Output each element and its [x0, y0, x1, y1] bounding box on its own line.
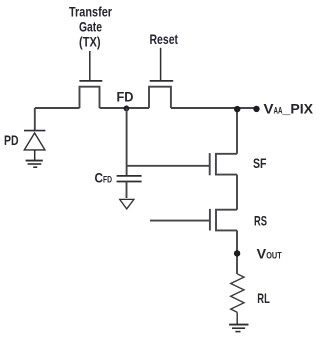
wire FD branch to SF gate [127, 165, 210, 167]
photodiode PD cathode bar [24, 130, 45, 132]
wire RS source down to VOUT [236, 230, 238, 274]
svg-text:FD: FD [117, 88, 134, 104]
wire SF source to RS drain [236, 175, 238, 210]
label VOUT [257, 246, 282, 262]
transistor RS gate lead [150, 220, 210, 222]
capacitor CFD plates [117, 176, 142, 182]
wire capacitor bottom lead [126, 182, 128, 199]
label VAA_PIX [264, 101, 314, 117]
wire RL bottom lead [236, 312, 238, 324]
transistor TX (transfer gate) channel bump [80, 87, 100, 108]
wire PD branch vertical [34, 108, 36, 131]
svg-text:RS: RS [254, 213, 267, 229]
ground triangle below CFD [120, 199, 134, 209]
node VAA_PIX junction dot [234, 106, 240, 112]
transistor SF channel and drain/source stubs [216, 154, 237, 175]
label RL [257, 290, 270, 306]
label RS [254, 213, 267, 229]
svg-text:Reset: Reset [150, 31, 179, 47]
svg-text:RL: RL [257, 290, 270, 306]
node FD junction dot [124, 106, 130, 112]
wire FD vertical to capacitor [126, 108, 128, 176]
svg-text:Transfer: Transfer [69, 4, 112, 20]
transistor Reset channel bump [149, 87, 171, 108]
transistor TX gate bar [79, 80, 102, 82]
wire top rail middle segment [100, 107, 150, 109]
label Transfer Gate (TX) [69, 4, 112, 50]
transistor Reset gate lead [160, 48, 162, 81]
transistor Reset gate bar [150, 80, 174, 82]
transistor RS channel and drain/source stubs [216, 210, 237, 231]
label SF [253, 155, 267, 171]
svg-text:VAA_PIX: VAA_PIX [264, 101, 314, 117]
wire top rail right segment [171, 107, 257, 109]
wire PD anode lead [34, 150, 36, 161]
label CFD [95, 169, 113, 185]
wire SF drain to top rail [236, 108, 238, 154]
photodiode PD anode triangle [24, 133, 45, 150]
transistor RS gate bar [209, 209, 211, 231]
svg-text:CFD: CFD [95, 169, 113, 185]
svg-text:VOUT: VOUT [257, 246, 282, 262]
label Reset [150, 31, 179, 47]
svg-text:Gate: Gate [79, 19, 102, 35]
node VOUT dot [234, 250, 240, 256]
label PD [4, 132, 19, 148]
wire top rail left segment [35, 107, 80, 109]
label FD [117, 88, 134, 104]
svg-text:PD: PD [4, 132, 19, 148]
transistor SF gate bar [209, 153, 211, 175]
node VAA_PIX terminal dot [253, 106, 259, 112]
transistor TX gate lead [89, 51, 91, 81]
svg-text:SF: SF [253, 155, 267, 171]
resistor RL zigzag [231, 274, 244, 312]
svg-text:(TX): (TX) [79, 34, 101, 50]
ground below RL [229, 325, 248, 332]
ground below PD [26, 161, 43, 168]
